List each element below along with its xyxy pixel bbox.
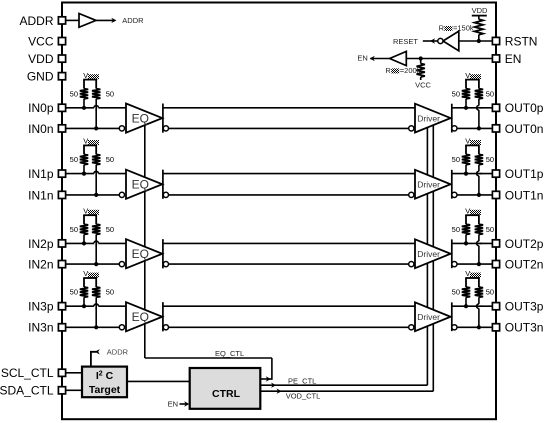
- svg-text:V: V: [465, 206, 470, 215]
- wire: [83, 99, 85, 108]
- resistor 50 ohm OUT0n: [475, 89, 483, 99]
- Driver1 input bubble: [409, 192, 414, 197]
- node IN0p termination junction: [82, 106, 86, 110]
- svg-text:50: 50: [486, 89, 494, 98]
- EQ2 input bubble: [119, 262, 124, 267]
- resistor 50 ohm IN0p: [80, 89, 88, 99]
- svg-text:ADDR: ADDR: [107, 348, 129, 357]
- svg-text:50: 50: [106, 89, 114, 98]
- node IN1p termination junction: [82, 172, 86, 176]
- wire: [420, 59, 422, 64]
- op-amp EQ2 block: [126, 239, 162, 268]
- pin SDA_CTL: [58, 387, 65, 394]
- Driver1 output bar: [451, 170, 453, 199]
- svg-text:V: V: [465, 71, 470, 80]
- wire EQ_CTL vertical bus: [144, 118, 146, 358]
- resistor 50 ohm IN2p: [80, 224, 88, 234]
- svg-text:50: 50: [70, 288, 78, 297]
- op-amp Driver3 block: [415, 302, 451, 331]
- wire buffer to ADDR arrow: [96, 19, 115, 21]
- svg-text:OUT3n: OUT3n: [505, 321, 544, 335]
- wire Driver1 to OUT1n: [457, 194, 492, 196]
- wire IN0n to EQ: [66, 127, 119, 129]
- svg-text:I2 C: I2 C: [96, 370, 114, 382]
- arrow EN into CTRL: [184, 401, 189, 406]
- termination network V IN1: [83, 137, 99, 155]
- wire Driver2 to OUT2n: [457, 263, 492, 265]
- resistor 50 ohm IN3p: [80, 287, 88, 297]
- svg-text:V: V: [83, 137, 88, 146]
- EQ3 output bar: [162, 302, 164, 331]
- node IN0n termination junction: [94, 126, 98, 130]
- svg-text:IN1p: IN1p: [28, 167, 54, 181]
- pin OUT2p: [492, 240, 499, 247]
- wire IN2p to EQ: [66, 242, 126, 244]
- svg-text:EQ: EQ: [132, 111, 149, 125]
- svg-text:OUT3p: OUT3p: [505, 300, 544, 314]
- resistor 50 ohm OUT2p: [462, 224, 470, 234]
- pin OUT3n: [492, 324, 499, 331]
- svg-text:EQ_CTL: EQ_CTL: [215, 349, 244, 358]
- wire: [83, 165, 85, 174]
- svg-text:50: 50: [486, 225, 494, 234]
- wire VOD_CTL: [260, 390, 433, 392]
- wire IN0p to EQ: [66, 107, 126, 109]
- wire EQ1 to Driver1 n: [169, 194, 409, 196]
- wire EQ2 to Driver2 p: [163, 242, 415, 244]
- wire EQ_CTL horizontal: [145, 357, 272, 359]
- wire: [83, 297, 85, 306]
- inverter U-RSTN: [443, 31, 459, 51]
- wire: [478, 35, 480, 41]
- wire EQ3 to Driver3 n: [169, 326, 409, 328]
- svg-text:Driver: Driver: [417, 113, 440, 123]
- wire EQ3 to Driver3 p: [163, 305, 415, 307]
- wire EQ_CTL from CTRL: [260, 378, 272, 380]
- wire Driver3 to OUT3n: [457, 326, 492, 328]
- op-amp Driver2 block: [415, 239, 451, 268]
- svg-text:GND: GND: [27, 70, 54, 84]
- chip outline border: [62, 3, 496, 420]
- svg-text:IN2n: IN2n: [28, 258, 53, 272]
- pin IN2n: [58, 261, 65, 268]
- pin IN0n: [58, 125, 65, 132]
- svg-text:OUT1n: OUT1n: [505, 188, 544, 202]
- svg-text:IN0n: IN0n: [28, 122, 53, 136]
- EQ1 input bubble: [119, 192, 124, 197]
- termination network V OUT2: [465, 206, 481, 224]
- op-amp EQ1 block: [126, 170, 162, 199]
- svg-text:=200k: =200k: [400, 66, 421, 75]
- wire: [478, 297, 480, 327]
- svg-text:ADDR: ADDR: [19, 14, 53, 28]
- svg-text:Driver: Driver: [417, 312, 440, 322]
- node OUT1p termination junction: [464, 172, 468, 176]
- wire VOD_CTL vertical bus: [432, 118, 434, 391]
- Driver2 output bar: [451, 239, 453, 268]
- svg-text:50: 50: [486, 155, 494, 164]
- pin IN3p: [58, 303, 65, 310]
- EQ2 output bubble: [163, 262, 168, 267]
- svg-text:IN2p: IN2p: [28, 237, 54, 251]
- svg-text:Target: Target: [89, 384, 121, 396]
- pin EN: [492, 55, 499, 62]
- hatched label box: [444, 26, 452, 31]
- svg-text:OUT1p: OUT1p: [505, 167, 544, 181]
- arrow VOD_CTL: [277, 389, 282, 394]
- pin IN1p: [58, 170, 65, 177]
- svg-text:50: 50: [452, 89, 460, 98]
- node IN2p termination junction: [82, 241, 86, 245]
- resistor 50 ohm OUT1p: [462, 154, 470, 164]
- wire: [95, 99, 97, 128]
- svg-text:CTRL: CTRL: [212, 388, 241, 400]
- arrow EQ_CTL: [266, 376, 271, 381]
- svg-text:V: V: [83, 206, 88, 215]
- wire PE_CTL vertical bus: [426, 118, 428, 385]
- buffer U-EN: [390, 51, 407, 65]
- wire hop IN1p over resistor lead: [94, 173, 99, 175]
- pin OUT0n: [492, 125, 499, 132]
- svg-text:EN: EN: [357, 54, 367, 63]
- arrow ADDR into I2C: [95, 349, 100, 354]
- wire Driver1 to OUT1p: [452, 173, 492, 175]
- svg-text:R: R: [439, 24, 445, 33]
- wire EN out: [370, 58, 389, 60]
- svg-text:VCC: VCC: [28, 35, 54, 49]
- pin OUT2n: [492, 261, 499, 268]
- svg-text:50: 50: [486, 288, 494, 297]
- EQ3 input bubble: [119, 325, 124, 330]
- resistor 50 ohm IN2n: [92, 224, 100, 234]
- node OUT2n termination junction: [477, 262, 481, 266]
- op-amp EQ3 block: [126, 302, 162, 331]
- wire: [465, 99, 467, 108]
- pin VCC: [58, 38, 65, 45]
- svg-text:V: V: [83, 71, 88, 80]
- Driver2 input bubble: [409, 262, 414, 267]
- node OUT3n termination junction: [477, 325, 481, 329]
- EQ3 output bubble: [163, 325, 168, 330]
- pin OUT1n: [492, 191, 499, 198]
- wire: [465, 297, 467, 306]
- arrow ADDR out: [111, 18, 116, 23]
- wire: [478, 235, 480, 265]
- svg-text:50: 50: [452, 155, 460, 164]
- svg-text:50: 50: [106, 225, 114, 234]
- svg-text:OUT0n: OUT0n: [505, 122, 544, 136]
- wire inverter to RSTN pin: [459, 40, 492, 42]
- svg-text:IN1n: IN1n: [28, 188, 53, 202]
- termination network V IN2: [83, 206, 99, 224]
- wire EN to CTRL: [180, 403, 188, 405]
- resistor 50 ohm IN1n: [92, 154, 100, 164]
- resistor R 150k pull-up: [475, 19, 483, 34]
- svg-text:RSTN: RSTN: [505, 34, 538, 48]
- wire: [478, 165, 480, 195]
- wire hop IN2p over resistor lead: [94, 243, 99, 245]
- node OUT2p termination junction: [464, 241, 468, 245]
- node EN pulldown junction: [419, 56, 423, 60]
- svg-text:50: 50: [452, 225, 460, 234]
- arrow RESET: [430, 38, 435, 43]
- resistor 50 ohm IN3n: [92, 287, 100, 297]
- resistor R 200k: [417, 64, 425, 78]
- Driver3 input bubble: [409, 325, 414, 330]
- svg-text:IN3p: IN3p: [28, 300, 54, 314]
- wire EQ2 to Driver2 n: [169, 263, 409, 265]
- svg-text:50: 50: [70, 155, 78, 164]
- svg-text:50: 50: [106, 155, 114, 164]
- termination network V OUT1: [465, 137, 481, 155]
- op-amp EQ0 block: [126, 104, 162, 133]
- resistor 50 ohm OUT0p: [462, 89, 470, 99]
- pin RSTN: [492, 37, 499, 44]
- wire IN2n to EQ: [66, 263, 119, 265]
- resistor 50 ohm IN1p: [80, 154, 88, 164]
- wire hop resistor lead over OUT3p: [478, 304, 480, 309]
- EQ0 output bar: [162, 104, 164, 133]
- Driver3 output bubble: [452, 325, 457, 330]
- Driver2 output bubble: [452, 262, 457, 267]
- pin VDD: [58, 55, 65, 62]
- wire Driver0 to OUT0p: [452, 107, 492, 109]
- wire SCL_CTL to I2C: [66, 372, 82, 374]
- svg-text:VDD: VDD: [28, 52, 54, 66]
- node IN2n termination junction: [94, 262, 98, 266]
- EQ1 output bar: [162, 170, 164, 199]
- svg-text:PE_CTL: PE_CTL: [288, 376, 316, 385]
- wire SDA_CTL to I2C: [66, 389, 82, 391]
- svg-text:V: V: [83, 269, 88, 278]
- arrow PE_CTL: [271, 383, 276, 388]
- wire hop IN0p over resistor lead: [94, 107, 99, 109]
- wire EQ0 to Driver0 n: [169, 127, 409, 129]
- svg-text:Driver: Driver: [417, 249, 440, 259]
- svg-text:VDD: VDD: [472, 6, 488, 15]
- pin IN1n: [58, 191, 65, 198]
- wire IN1n to EQ: [66, 194, 119, 196]
- op-amp Driver0 block: [415, 104, 451, 133]
- svg-text:VCC: VCC: [415, 80, 431, 89]
- wire hop resistor lead over OUT2p: [478, 241, 480, 246]
- svg-text:SDA_CTL: SDA_CTL: [0, 384, 54, 398]
- resistor 50 ohm OUT2n: [475, 224, 483, 234]
- svg-text:IN3n: IN3n: [28, 321, 53, 335]
- Driver3 output bar: [451, 302, 453, 331]
- wire: [465, 165, 467, 174]
- resistor 50 ohm OUT3p: [462, 287, 470, 297]
- node RSTN pullup junction: [477, 39, 481, 43]
- wire RESET: [423, 40, 438, 42]
- pin SCL_CTL: [58, 369, 65, 376]
- svg-text:EQ: EQ: [132, 177, 149, 191]
- node OUT0n termination junction: [477, 126, 481, 130]
- svg-text:EN: EN: [168, 400, 178, 409]
- node OUT3p termination junction: [464, 304, 468, 308]
- EQ0 input bubble: [119, 126, 124, 131]
- wire IN3n to EQ: [66, 326, 119, 328]
- Driver0 input bubble: [409, 126, 414, 131]
- node IN1n termination junction: [94, 193, 98, 197]
- termination network V IN3: [83, 269, 99, 287]
- wire IN1p to EQ: [66, 173, 126, 175]
- buffer U-ADDR: [79, 14, 96, 28]
- op-amp Driver1 block: [415, 170, 451, 199]
- svg-text:EN: EN: [505, 52, 522, 66]
- wire ADDR stub from I2C Target: [91, 352, 96, 367]
- pin ADDR: [58, 17, 65, 24]
- EQ2 output bar: [162, 239, 164, 268]
- wire: [95, 165, 97, 195]
- svg-text:50: 50: [452, 288, 460, 297]
- wire buffer to EN pin: [406, 58, 492, 60]
- wire: [465, 235, 467, 244]
- svg-text:V: V: [465, 137, 470, 146]
- wire ADDR pin to buffer: [66, 19, 79, 21]
- wire Driver0 to OUT0n: [457, 127, 492, 129]
- wire: [95, 297, 97, 327]
- resistor 50 ohm OUT1n: [475, 154, 483, 164]
- arrow EN: [370, 56, 375, 61]
- Driver1 output bubble: [452, 192, 457, 197]
- termination network V IN0: [83, 71, 99, 89]
- inverter bubble: [438, 38, 443, 43]
- node OUT1n termination junction: [477, 193, 481, 197]
- svg-text:RESET: RESET: [393, 37, 418, 46]
- hatched label box: [391, 68, 399, 73]
- wire EQ0 to Driver0 p: [163, 107, 415, 109]
- Driver0 output bubble: [452, 126, 457, 131]
- svg-text:SCL_CTL: SCL_CTL: [1, 366, 54, 380]
- pin GND: [58, 73, 65, 80]
- wire: [478, 99, 480, 128]
- pin IN3n: [58, 324, 65, 331]
- block CTRL: [190, 368, 261, 409]
- pin IN0p: [58, 104, 65, 111]
- wire I2C to CTRL: [127, 380, 190, 382]
- wire: [83, 235, 85, 244]
- svg-text:R: R: [385, 66, 391, 75]
- wire hop resistor lead over OUT0p: [478, 106, 480, 111]
- svg-text:50: 50: [70, 89, 78, 98]
- node IN3n termination junction: [94, 325, 98, 329]
- svg-text:OUT0p: OUT0p: [505, 101, 544, 115]
- svg-text:V: V: [465, 269, 470, 278]
- pin IN2p: [58, 240, 65, 247]
- wire Driver3 to OUT3p: [452, 305, 492, 307]
- svg-text:50: 50: [106, 288, 114, 297]
- svg-text:OUT2p: OUT2p: [505, 237, 544, 251]
- svg-text:ADDR: ADDR: [122, 16, 144, 25]
- svg-text:OUT2n: OUT2n: [505, 258, 544, 272]
- termination network V OUT3: [465, 269, 481, 287]
- wire: [420, 77, 422, 80]
- resistor 50 ohm OUT3n: [475, 287, 483, 297]
- block I2C Target: [82, 367, 127, 398]
- wire hop IN3p over resistor lead: [94, 305, 99, 307]
- pin OUT3p: [492, 303, 499, 310]
- wire Driver2 to OUT2p: [452, 242, 492, 244]
- power VDD symbol: [472, 6, 488, 19]
- wire EQ1 to Driver1 p: [163, 173, 415, 175]
- node OUT0p termination junction: [464, 106, 468, 110]
- node IN3p termination junction: [82, 304, 86, 308]
- Driver0 output bar: [451, 104, 453, 133]
- svg-text:Driver: Driver: [417, 179, 440, 189]
- wire hop resistor lead over OUT1p: [478, 171, 480, 176]
- resistor 50 ohm IN0n: [92, 89, 100, 99]
- EQ1 output bubble: [163, 192, 168, 197]
- wire PE_CTL: [260, 384, 427, 386]
- svg-text:EQ: EQ: [132, 310, 149, 324]
- svg-text:=150k: =150k: [453, 24, 474, 33]
- wire: [95, 235, 97, 265]
- wire EQ_CTL riser: [271, 358, 273, 380]
- svg-text:50: 50: [70, 225, 78, 234]
- wire IN3p to EQ: [66, 305, 126, 307]
- svg-text:EQ: EQ: [132, 247, 149, 261]
- termination network V OUT0: [465, 71, 481, 89]
- EQ0 output bubble: [163, 126, 168, 131]
- pin OUT1p: [492, 170, 499, 177]
- pin OUT0p: [492, 104, 499, 111]
- svg-text:VOD_CTL: VOD_CTL: [286, 392, 321, 401]
- svg-text:IN0p: IN0p: [28, 101, 54, 115]
